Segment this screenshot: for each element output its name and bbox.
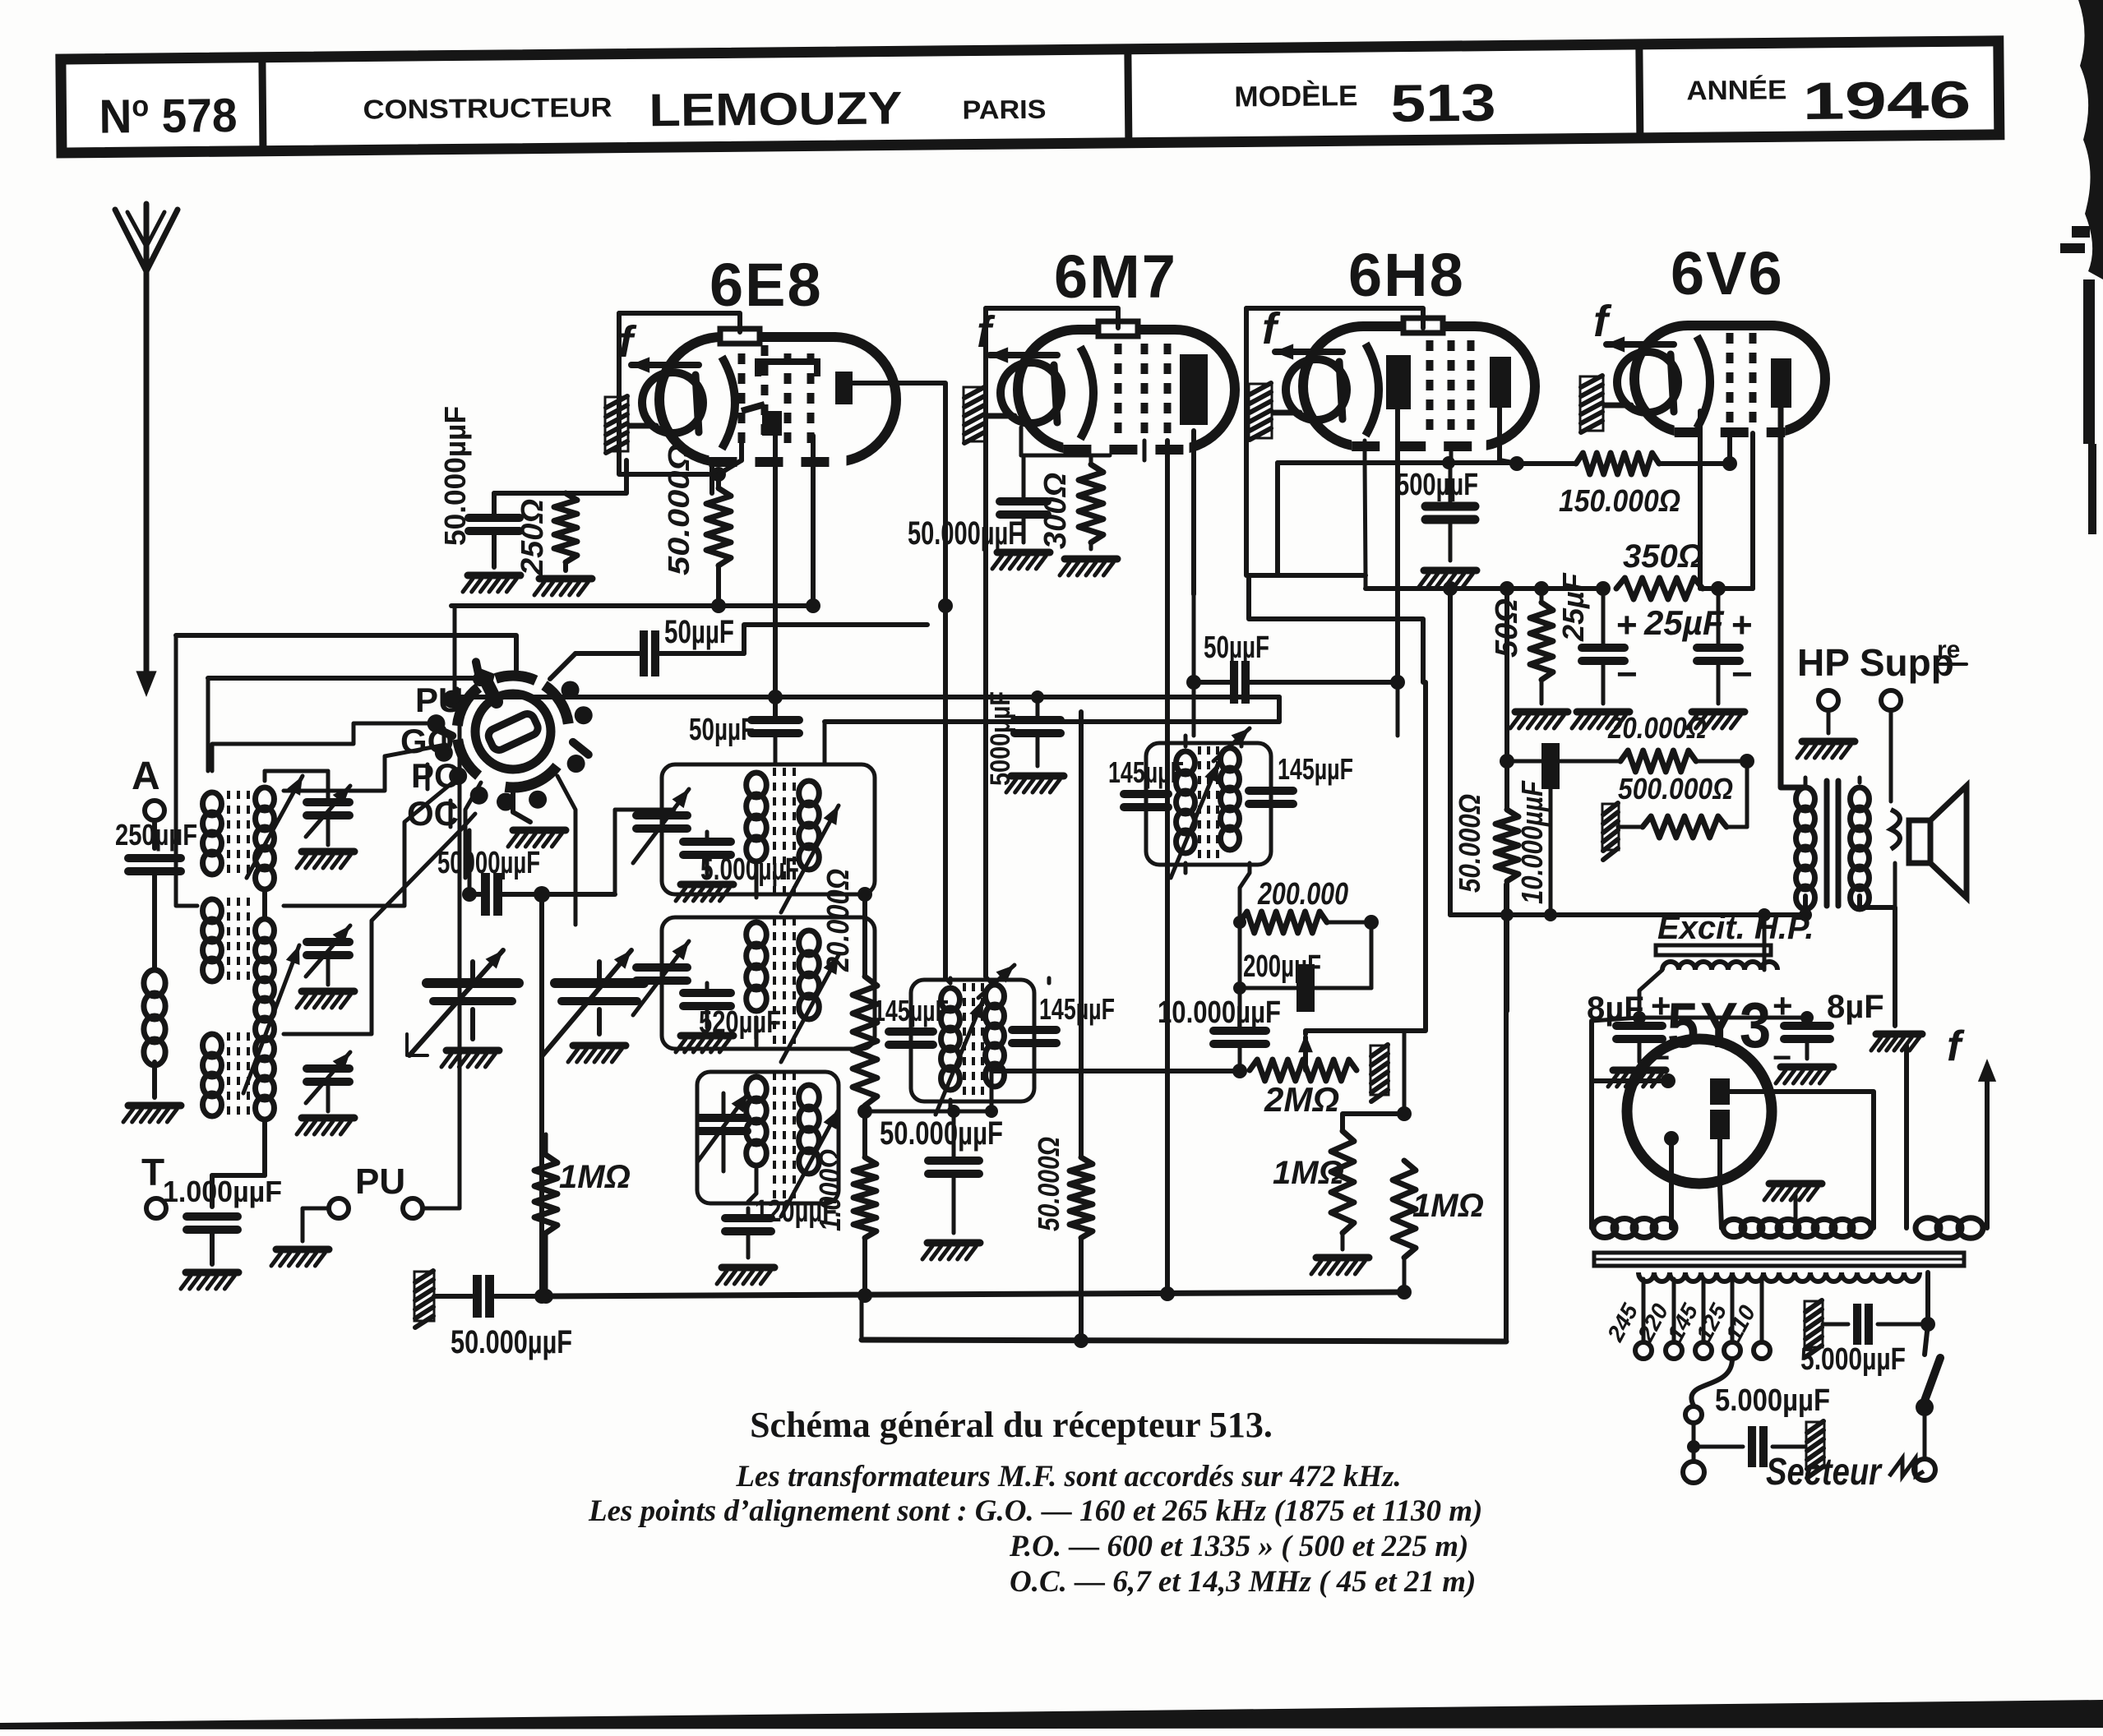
wire bus H2 xyxy=(862,1340,1506,1341)
svg-text:50µµF: 50µµF xyxy=(689,713,755,747)
tube 6V6 xyxy=(1580,297,1825,441)
wire xyxy=(544,1134,548,1155)
svg-text:145µµF: 145µµF xyxy=(1039,992,1115,1026)
transformer core xyxy=(1824,781,1830,906)
wire xyxy=(1079,1238,1084,1340)
wire xyxy=(303,1208,329,1241)
wire secondary bottom xyxy=(1860,896,1895,1026)
variable capacitor xyxy=(700,1114,747,1122)
wire xyxy=(1504,884,1509,1341)
resistor 350Ω xyxy=(1616,578,1703,599)
capacitor 25µF xyxy=(1582,644,1625,652)
ground xyxy=(1802,738,1855,746)
wire bus AVC xyxy=(451,603,813,608)
wire xyxy=(1449,460,1453,505)
terminal HP xyxy=(1819,690,1838,710)
capacitor 8µF xyxy=(1616,1022,1662,1030)
resistor 20.000Ω xyxy=(1620,750,1696,772)
capacitor 8µF xyxy=(1784,1022,1830,1030)
wire xyxy=(152,1062,157,1097)
wire xyxy=(823,722,827,764)
svg-text:25µF: 25µF xyxy=(1643,603,1725,642)
wire tuning tops xyxy=(470,962,475,983)
wire xyxy=(1327,921,1371,925)
capacitor 1.000µµF xyxy=(187,1212,238,1221)
terminal PU1 xyxy=(329,1198,349,1218)
coil L1 xyxy=(144,970,165,996)
ground xyxy=(1871,1034,1922,1050)
wire 6H8 diode lead xyxy=(1395,409,1400,682)
wire 6M7 cap xyxy=(986,308,1118,328)
osc transformer 2 xyxy=(746,922,767,947)
svg-text:6E8: 6E8 xyxy=(709,251,823,319)
capacitor 50µµF xyxy=(1230,661,1238,704)
capacitor 145µµF xyxy=(889,1027,933,1036)
svg-text:P.O. — 600 et 1335 »: P.O. — 600 et 1335 » ( 500 et 225 m) xyxy=(1009,1530,1468,1563)
capacitor 520µµF xyxy=(705,983,709,991)
coil L2 xyxy=(256,919,275,942)
wire 6H8 g lead xyxy=(1449,446,1454,460)
terminal PU2 xyxy=(403,1198,423,1218)
wire xyxy=(1019,427,1024,455)
wire bus2 xyxy=(208,676,480,681)
wire xyxy=(716,566,721,606)
speaker coil xyxy=(1891,810,1900,849)
ground xyxy=(186,1269,238,1277)
capacitor 5.000µµF xyxy=(1694,1445,1743,1449)
wire MF2 leads xyxy=(1184,736,1188,746)
svg-text:500µµF: 500µµF xyxy=(1396,468,1478,502)
wire xyxy=(284,814,475,1034)
wire box 6H8 xyxy=(1246,308,1366,575)
svg-text:No 578: No 578 xyxy=(99,88,238,144)
wire 6M7 leads xyxy=(1143,441,1147,460)
wire 6H8 cap xyxy=(1246,308,1423,328)
ground xyxy=(513,827,566,834)
svg-text:−: − xyxy=(1731,654,1753,695)
wire lead g2 xyxy=(811,436,816,606)
capacitor xyxy=(928,1157,979,1165)
wire xyxy=(1549,789,1553,915)
wire filter link xyxy=(1639,1016,1807,1020)
wire box 6M7 xyxy=(983,308,988,976)
wire xyxy=(1805,1041,1810,1059)
wire B+ rail xyxy=(1450,912,1805,917)
svg-text:50.000Ω: 50.000Ω xyxy=(1032,1137,1065,1231)
resistor 50Ω xyxy=(1530,603,1553,680)
svg-text:145µµF: 145µµF xyxy=(1108,755,1184,789)
capacitor 50.000µµF xyxy=(481,873,490,916)
svg-text:6H8: 6H8 xyxy=(1348,241,1465,309)
capacitor 120µµF xyxy=(746,1208,751,1215)
resistor 2MΩ potentiometer xyxy=(1250,1060,1357,1081)
capacitor 145µµF xyxy=(1012,1026,1056,1034)
svg-text:PU: PU xyxy=(355,1161,405,1202)
wire primary right xyxy=(1925,1272,1928,1355)
svg-text:8µF: 8µF xyxy=(1827,989,1884,1025)
wire xyxy=(949,1100,953,1111)
ground xyxy=(468,572,520,579)
svg-text:25µF: 25µF xyxy=(1556,572,1590,642)
ground xyxy=(927,1240,980,1247)
svg-text:513: 513 xyxy=(1390,73,1496,133)
svg-text:50.000Ω: 50.000Ω xyxy=(662,444,696,575)
transformer tap 125 xyxy=(1731,1279,1735,1340)
svg-text:50µµF: 50µµF xyxy=(664,614,734,650)
resistor 1.000Ω xyxy=(853,1157,876,1238)
capacitor 145µµF xyxy=(1249,787,1293,795)
ground xyxy=(1316,1254,1369,1262)
svg-text:1MΩ: 1MΩ xyxy=(1412,1188,1484,1224)
wire box osc3 xyxy=(697,1072,839,1203)
svg-text:5.000µµF: 5.000µµF xyxy=(700,852,799,887)
wire xyxy=(952,1111,956,1159)
wire box 6E8 xyxy=(619,313,709,474)
svg-text:250µµF: 250µµF xyxy=(115,818,197,852)
svg-text:+: + xyxy=(1773,986,1793,1025)
hatch xyxy=(1602,804,1619,850)
svg-text:20.000Ω: 20.000Ω xyxy=(1607,711,1707,745)
transformer tap 220 xyxy=(1672,1279,1676,1340)
wire xyxy=(862,1238,867,1295)
wire xyxy=(557,776,575,925)
capacitor 50µµF xyxy=(640,630,648,676)
capacitor 25µF xyxy=(1697,644,1740,652)
pot hatch xyxy=(1370,1046,1389,1095)
transformer primary xyxy=(1638,1272,1920,1281)
wire xyxy=(1238,988,1242,1029)
svg-text:50.000µµF: 50.000µµF xyxy=(438,406,472,546)
wire xyxy=(1639,970,1662,1018)
header divider 1 xyxy=(262,58,263,151)
wire xyxy=(1089,542,1093,549)
ground xyxy=(1692,709,1745,716)
wire xyxy=(1036,697,1040,718)
tuned circuit OC xyxy=(203,1034,222,1057)
svg-text:50.000µµF: 50.000µµF xyxy=(908,515,1023,552)
wire bus detector xyxy=(991,1069,1240,1073)
wire MF1 top lead xyxy=(949,978,953,983)
tube 6H8 xyxy=(1249,304,1535,455)
ground xyxy=(539,575,592,583)
wire y753 xyxy=(1249,575,1423,682)
wire xyxy=(152,873,157,970)
wire primary bottom xyxy=(1803,896,1808,915)
resistor 250Ω xyxy=(554,493,577,562)
wire vertical 1936 xyxy=(1589,1021,1594,1228)
wire top xyxy=(494,491,566,496)
wire riser MF1 xyxy=(938,598,953,613)
wire GO row xyxy=(212,723,428,771)
wire xyxy=(563,562,568,570)
wire xyxy=(1240,986,1296,990)
svg-text:Schéma général du récepteur: Schéma général du récepteur 513. xyxy=(750,1405,1273,1445)
wire box osc2 xyxy=(662,917,875,1049)
osc transformer 1 xyxy=(746,773,767,797)
resistor 200.000 xyxy=(1240,912,1327,933)
ground xyxy=(1577,709,1629,716)
svg-text:1.000Ω: 1.000Ω xyxy=(813,1149,847,1231)
osc transformer 3 xyxy=(746,1077,767,1101)
svg-text:MODÈLE: MODÈLE xyxy=(1234,79,1357,113)
wire xyxy=(1343,1114,1404,1131)
svg-text:10.000µµF: 10.000µµF xyxy=(1515,780,1549,904)
transformer winding 5Y3 filament xyxy=(1593,1219,1616,1238)
svg-text:1.000µµF: 1.000µµF xyxy=(163,1175,282,1208)
wire xyxy=(492,493,497,516)
svg-text:HP Supp: HP Supp xyxy=(1797,641,1954,684)
wire xyxy=(212,1173,265,1178)
svg-text:520µµF: 520µµF xyxy=(699,1005,781,1040)
ground xyxy=(1515,709,1568,716)
svg-text:20.000Ω: 20.000Ω xyxy=(821,869,856,972)
svg-text:1MΩ: 1MΩ xyxy=(1273,1155,1344,1191)
wire xyxy=(1827,710,1831,733)
header divider 2 xyxy=(1128,49,1129,143)
svg-text:5000µµF: 5000µµF xyxy=(985,691,1016,786)
variable capacitor xyxy=(636,963,687,972)
ground xyxy=(128,1102,181,1110)
svg-text:50.000µµF: 50.000µµF xyxy=(880,1115,1003,1152)
wire row xyxy=(1366,586,1603,591)
wire xyxy=(862,894,867,976)
ground xyxy=(1424,567,1477,575)
wire 6E8 cathode lead xyxy=(709,460,714,493)
wire xyxy=(262,892,267,919)
antenna xyxy=(144,271,150,682)
MF transformer 2 xyxy=(1176,751,1195,774)
capacitor 145µµF xyxy=(1124,790,1168,798)
svg-text:Excit. H.P.: Excit. H.P. xyxy=(1657,910,1814,946)
svg-text:+: + xyxy=(1731,605,1753,645)
svg-text:6M7: 6M7 xyxy=(1054,242,1177,311)
svg-text:500.000Ω: 500.000Ω xyxy=(1618,772,1733,806)
transformer winding HT xyxy=(1723,1219,1745,1236)
resistor 20.000Ω xyxy=(853,976,877,1106)
svg-text:50.000Ω: 50.000Ω xyxy=(1453,794,1486,893)
header outer box xyxy=(61,41,1999,153)
wire MF2 box xyxy=(1146,743,1271,865)
wire xyxy=(1341,1233,1345,1249)
svg-text:10.000µµF: 10.000µµF xyxy=(1158,995,1281,1030)
resistor 300Ω xyxy=(1079,464,1103,542)
header divider 3 xyxy=(1639,44,1640,138)
output transformer primary xyxy=(1796,787,1815,810)
wire MF1 box xyxy=(911,980,1034,1101)
wire 5Y3 plate top xyxy=(1730,1092,1874,1228)
svg-text:PARIS: PARIS xyxy=(962,95,1046,125)
wire bus y878 xyxy=(825,719,1279,724)
wire xyxy=(469,892,481,897)
variable capacitor tuning 2 xyxy=(555,978,644,988)
paper edge smudge xyxy=(2078,0,2103,279)
wire bus xyxy=(176,635,516,670)
wire primary top xyxy=(1804,778,1808,787)
wire row2 xyxy=(1703,586,1753,591)
resistor 50.000Ω xyxy=(1495,810,1518,881)
svg-text:Secteur: Secteur xyxy=(1766,1450,1883,1493)
capacitor 5.000µµF xyxy=(705,832,709,840)
wire xyxy=(210,1231,215,1264)
wire 6H8 leads xyxy=(1363,441,1367,460)
transformer tap 110 xyxy=(1760,1279,1764,1340)
wire bus y848 xyxy=(455,695,1279,699)
capacitor 5000µµF xyxy=(1015,716,1061,724)
wire xyxy=(1551,759,1620,764)
wire 6H8 anode lead xyxy=(1497,408,1502,460)
svg-text:145µµF: 145µµF xyxy=(1278,752,1353,786)
bottom scan bar xyxy=(0,1700,2103,1729)
svg-text:300Ω: 300Ω xyxy=(1038,473,1073,549)
terminal Supp xyxy=(1881,690,1901,710)
wire xyxy=(284,745,446,791)
wire xyxy=(1717,589,1721,646)
svg-text:CONSTRUCTEUR: CONSTRUCTEUR xyxy=(363,92,612,125)
svg-text:5.000µµF: 5.000µµF xyxy=(1800,1342,1906,1377)
transformer winding heater xyxy=(1916,1218,1940,1239)
capacitor 50.000µµF xyxy=(1000,497,1047,506)
svg-text:150.000Ω: 150.000Ω xyxy=(1559,484,1680,519)
wire heater left xyxy=(1904,1046,1909,1228)
wire xyxy=(1638,1041,1642,1062)
wire tap 125 to mains xyxy=(1691,1359,1732,1406)
wire 6V6 cathode lead xyxy=(1698,411,1703,589)
wire xyxy=(511,786,515,812)
ground xyxy=(1011,773,1064,780)
wire B+ top xyxy=(1275,463,1280,575)
wire vertical xyxy=(1448,589,1453,915)
transformer tap 245 xyxy=(1642,1279,1646,1340)
wire xyxy=(575,651,640,656)
wire box osc1 xyxy=(662,764,875,894)
wire osc bottoms xyxy=(755,865,759,898)
wire bus H1 xyxy=(543,1292,1404,1296)
variable capacitor tuning 1 xyxy=(427,978,519,988)
wire 5Y3 fil right xyxy=(1669,1138,1674,1228)
svg-text:5Y3: 5Y3 xyxy=(1667,989,1773,1061)
wire xyxy=(468,830,472,894)
svg-text:1MΩ: 1MΩ xyxy=(559,1159,631,1195)
svg-text:200.000: 200.000 xyxy=(1257,877,1348,912)
svg-text:re: re xyxy=(1937,636,1960,663)
speaker xyxy=(1909,820,1930,863)
wire xyxy=(1089,455,1093,464)
svg-text:50µµF: 50µµF xyxy=(1204,630,1269,665)
wire xyxy=(1079,712,1084,1157)
capacitor 200µµF xyxy=(1296,964,1315,1012)
wire xyxy=(1504,589,1509,810)
terminal T xyxy=(146,1198,166,1218)
HT center tap ground xyxy=(1764,1184,1822,1200)
svg-text:145µµF: 145µµF xyxy=(873,994,949,1027)
tuned circuit GO xyxy=(203,792,222,815)
ground xyxy=(1065,556,1117,563)
tube 5Y3 xyxy=(1627,1039,1772,1184)
svg-text:ANNÉE: ANNÉE xyxy=(1686,74,1786,105)
capacitor 50µµF xyxy=(751,716,799,724)
svg-text:O.C. — 6,7 et 14,3 MHz (: O.C. — 6,7 et 14,3 MHz ( 45 et 21 m) xyxy=(1010,1565,1476,1599)
resistor 500.000Ω xyxy=(1643,816,1726,838)
svg-text:GO: GO xyxy=(400,722,454,760)
capacitor 250µµF xyxy=(128,854,181,862)
capacitor 10.000µµF xyxy=(1213,1027,1266,1035)
svg-text:5.000µµF: 5.000µµF xyxy=(1715,1383,1830,1418)
capacitor 50.000µµF xyxy=(434,1294,472,1299)
tube 6E8 xyxy=(605,317,896,471)
wire xyxy=(453,606,457,697)
wire xyxy=(550,653,575,679)
svg-text:50.000µµF: 50.000µµF xyxy=(451,1324,572,1360)
capacitor 50.000µµF xyxy=(469,514,520,522)
wire xyxy=(862,1106,867,1157)
wire xyxy=(615,810,674,894)
tuned circuit PO xyxy=(203,899,222,922)
ground xyxy=(997,549,1050,556)
wire to 6E8 xyxy=(566,460,626,493)
svg-text:Les points d’alignement: Les points d’alignement sont : G.O. — 16… xyxy=(588,1494,1482,1528)
wire xyxy=(1194,680,1230,685)
band switch xyxy=(475,694,551,769)
wire top cap 6E8 xyxy=(619,313,740,332)
wire xyxy=(1403,1032,1407,1114)
wire PU to switch xyxy=(423,697,460,1208)
wire 6H8 bus xyxy=(1364,575,1368,589)
svg-text:350Ω: 350Ω xyxy=(1623,538,1703,575)
wire xyxy=(1618,825,1643,829)
ground xyxy=(276,1246,329,1254)
resistor 50.000Ω xyxy=(1070,1157,1093,1238)
svg-text:Les transformateurs M.F.: Les transformateurs M.F. sont accordés s… xyxy=(735,1460,1401,1494)
capacitor 500µµF xyxy=(1426,502,1475,511)
pot wiper xyxy=(1303,1037,1308,1070)
resistor 1MΩ xyxy=(1331,1131,1354,1233)
wire xyxy=(1592,1018,1639,1021)
wire xyxy=(1517,461,1576,466)
wire field right xyxy=(1763,915,1767,970)
svg-text:LEMOUZY: LEMOUZY xyxy=(649,81,903,136)
transformer core bar xyxy=(1594,1253,1964,1266)
svg-text:6V6: 6V6 xyxy=(1671,239,1784,307)
ground xyxy=(1613,1067,1666,1074)
terminal A xyxy=(145,801,164,820)
wire diag link xyxy=(407,1034,428,1055)
wire xyxy=(206,678,210,771)
wire 6V6 anode lead xyxy=(1781,408,1805,787)
wire xyxy=(1507,759,1541,764)
resistor 50.000Ω xyxy=(706,488,731,566)
wire 5Y3 plate bottom xyxy=(1720,1139,1722,1228)
wire xyxy=(284,781,455,906)
svg-text:2MΩ: 2MΩ xyxy=(1264,1080,1339,1119)
wire xyxy=(152,820,157,848)
svg-text:+: + xyxy=(1616,605,1638,645)
ground xyxy=(1781,1064,1833,1071)
wire heater right f xyxy=(1985,1069,1990,1228)
chassis hatch xyxy=(414,1272,434,1321)
wire xyxy=(1602,589,1606,646)
capacitor 5.000µµF xyxy=(1805,1301,1823,1347)
wire xyxy=(465,783,481,878)
wire h xyxy=(865,1110,991,1114)
wire xyxy=(539,894,544,1292)
output transformer secondary xyxy=(1851,787,1870,810)
resistor 150.000Ω xyxy=(1576,453,1659,474)
svg-text:−: − xyxy=(1616,654,1638,695)
svg-text:PO: PO xyxy=(411,756,461,795)
wire 6V6 screen lead xyxy=(1750,433,1755,589)
wire 6E8 anode out xyxy=(853,383,945,978)
wire xyxy=(1238,922,1242,988)
